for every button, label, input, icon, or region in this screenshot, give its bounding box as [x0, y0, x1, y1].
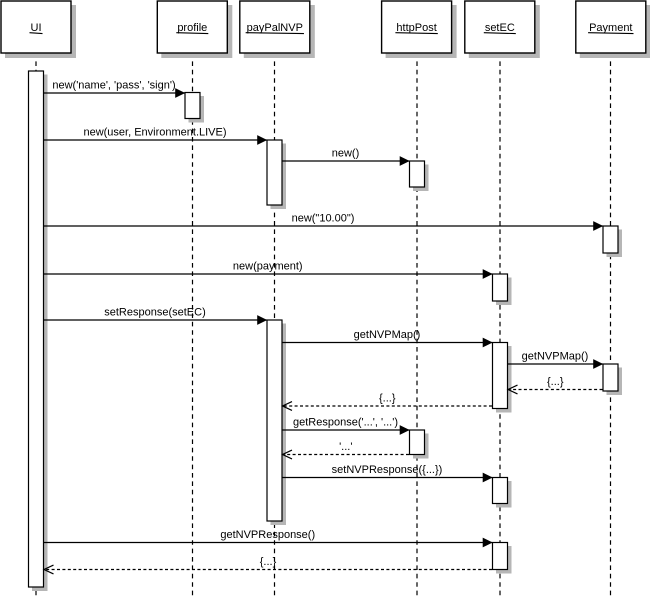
- message 7 payPalNVP to setEC: getNVPMap(): [282, 329, 492, 347]
- activation bar payPalNVP 2: [267, 320, 286, 525]
- svg-text:{...}: {...}: [547, 376, 564, 388]
- svg-text:profile: profile: [177, 22, 207, 34]
- message 2 UI to payPalNVP: new(user, Environment.LIVE): [44, 127, 267, 145]
- lifeline httpPost: [416, 53, 418, 597]
- participant box Payment: [576, 1, 650, 58]
- activation bar Payment 2: [603, 364, 622, 395]
- svg-text:{...}: {...}: [260, 556, 277, 568]
- message 5 UI to setEC: new(payment): [44, 261, 493, 279]
- svg-text:getResponse('...', '...'): getResponse('...', '...'): [293, 417, 398, 429]
- svg-text:getNVPMap(): getNVPMap(): [354, 329, 421, 341]
- svg-text:setNVPResponse({...}): setNVPResponse({...}): [332, 464, 443, 476]
- participant box setEC: [465, 1, 540, 58]
- message 11 payPalNVP to httpPost: getResponse('...', '...'): [282, 417, 409, 435]
- activation bar profile: [185, 93, 204, 123]
- message 6 UI to payPalNVP: setResponse(setEC): [44, 307, 267, 325]
- message 12 return httpPost to payPalNVP: '...': [283, 441, 410, 459]
- svg-text:{...}: {...}: [379, 393, 396, 405]
- svg-text:new('name', 'pass', 'sign'): new('name', 'pass', 'sign'): [52, 80, 175, 92]
- message 13 payPalNVP to setEC: setNVPResponse({...}): [282, 464, 492, 482]
- message 9 return Payment to setEC: {...}: [508, 376, 603, 394]
- svg-text:Payment: Payment: [589, 22, 632, 34]
- activation bar setEC 3: [493, 478, 512, 508]
- svg-text:setEC: setEC: [485, 22, 515, 34]
- participant box httpPost: [382, 1, 457, 58]
- message 1 UI to profile: new('name', 'pass', 'sign'): [44, 80, 185, 98]
- lifeline Payment: [610, 53, 612, 597]
- lifeline profile: [192, 53, 194, 597]
- lifeline setEC: [499, 53, 501, 597]
- svg-text:new(): new(): [332, 148, 360, 160]
- activation bar payPalNVP 1: [267, 140, 286, 209]
- message 10 return setEC to payPalNVP: {...}: [283, 393, 493, 411]
- activation bar setEC 4: [493, 543, 512, 574]
- message 14 UI to setEC: getNVPResponse(): [44, 529, 493, 547]
- message 8 setEC to Payment: getNVPMap(): [508, 351, 603, 369]
- svg-text:getNVPMap(): getNVPMap(): [522, 351, 589, 363]
- svg-text:UI: UI: [31, 22, 42, 34]
- activation bar setEC 2: [493, 343, 512, 413]
- svg-text:payPalNVP: payPalNVP: [247, 22, 303, 34]
- activation bar Payment 1: [603, 226, 622, 257]
- svg-text:new("10.00"): new("10.00"): [292, 213, 355, 225]
- message 15 return setEC to UI: {...}: [44, 556, 492, 574]
- participant box profile: [157, 1, 232, 58]
- message 3 payPalNVP to httpPost: new(): [282, 148, 409, 166]
- activation bar UI: [29, 71, 48, 591]
- participant box payPalNVP: [240, 1, 315, 58]
- activation bar httpPost 2: [410, 430, 429, 459]
- lifeline payPalNVP: [274, 53, 276, 597]
- activation bar setEC 1: [493, 274, 512, 305]
- svg-text:httpPost: httpPost: [396, 22, 436, 34]
- message 4 UI to Payment: new("10.00"): [44, 213, 603, 231]
- activation bar httpPost 1: [410, 161, 429, 191]
- svg-text:'...': '...': [339, 441, 352, 453]
- participant box UI: [1, 1, 76, 58]
- svg-text:setResponse(setEC): setResponse(setEC): [104, 307, 206, 319]
- svg-text:new(user, Environment.LIVE): new(user, Environment.LIVE): [83, 127, 226, 139]
- svg-text:getNVPResponse(): getNVPResponse(): [220, 529, 315, 541]
- lifeline UI: [35, 53, 37, 597]
- svg-text:new(payment): new(payment): [233, 261, 303, 273]
